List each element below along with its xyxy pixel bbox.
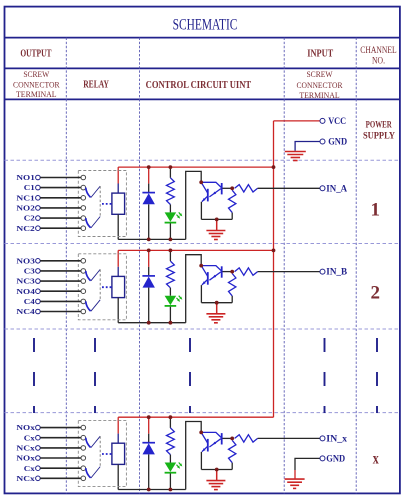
node top-rail diode junction 1	[147, 165, 151, 169]
resistor Rxb (base series)	[235, 435, 258, 442]
wire terminal C3	[40, 270, 81, 272]
terminal NO1 screw circle	[36, 175, 41, 180]
wire bottom rail x	[118, 489, 186, 491]
wire terminal NO3	[40, 260, 81, 262]
resistor R2b (base series)	[235, 268, 258, 275]
terminal Cx relay pin circle	[81, 435, 86, 440]
relay coil Kx	[112, 443, 125, 464]
terminal VCC circle	[320, 118, 325, 123]
wire relay coil bottom lead 2	[117, 298, 119, 323]
wire terminal C2	[40, 217, 81, 219]
wire emitter rail x	[201, 469, 232, 471]
switch pole 2 contact x	[86, 468, 91, 478]
wire terminal NC3	[40, 280, 81, 282]
relay dashed enclosure 1	[78, 171, 126, 237]
wire VCC top rail 2	[118, 249, 273, 251]
svg-text:CONNECTOR: CONNECTOR	[13, 81, 60, 90]
ground input channel x	[285, 478, 305, 480]
terminal C4 relay pin circle	[81, 299, 86, 304]
wire collector riser 2	[186, 255, 202, 323]
wire resistor branch upper x	[169, 417, 171, 428]
switch linkage x	[99, 436, 101, 466]
wire emitter rail 2	[201, 302, 232, 304]
terminal C1 screw circle	[36, 185, 41, 190]
svg-text:NO3: NO3	[16, 256, 35, 265]
terminal NC2 relay pin circle	[81, 226, 86, 231]
resistor R1b (base series)	[235, 185, 258, 192]
terminal C2 relay pin circle	[81, 216, 86, 221]
wire diode branch upper 2	[148, 250, 150, 267]
wire resistor branch upper 2	[169, 250, 171, 261]
transistor Q2	[201, 266, 222, 285]
wire VCC top rail x	[118, 416, 273, 418]
resistor R1c (base pull-down)	[229, 190, 236, 212]
terminal NOx screw circle	[36, 456, 41, 461]
terminal NCx screw circle	[36, 476, 41, 481]
node top-rail diode junction 2	[147, 249, 151, 253]
node top-rail diode junction x	[147, 415, 151, 419]
terminal C4 screw circle	[36, 299, 41, 304]
wire base lead 2	[223, 271, 233, 273]
terminal NO4 screw circle	[36, 289, 41, 294]
wire terminal NC2	[40, 227, 81, 229]
diode D1 (flyback)	[142, 192, 155, 194]
svg-text:SUPPLY: SUPPLY	[363, 130, 395, 140]
svg-text:NC2: NC2	[16, 224, 35, 233]
terminal NO3 screw circle	[36, 259, 41, 264]
node bottom-rail diode junction x	[147, 488, 151, 492]
svg-text:INPUT: INPUT	[307, 49, 333, 60]
wire terminal C4	[40, 300, 81, 302]
column divider x=284.2	[283, 38, 285, 494]
switch pole 1 blade 1	[91, 186, 100, 197]
wire diode branch lower x	[148, 454, 150, 489]
header row line 2	[5, 67, 400, 69]
node bottom-rail LED junction 1	[169, 238, 173, 242]
wire emitter lead x	[200, 452, 202, 470]
svg-text:IN_A: IN_A	[326, 184, 347, 194]
svg-text:IN_B: IN_B	[326, 268, 347, 278]
wire diode branch upper 1	[148, 167, 150, 184]
input terminal IN_x	[320, 436, 325, 441]
title row line	[5, 37, 400, 39]
terminal NC1 screw circle	[36, 196, 41, 201]
terminal C1 relay pin circle	[81, 185, 86, 190]
svg-text:RELAY: RELAY	[83, 80, 109, 91]
terminal NCx screw circle	[36, 446, 41, 451]
terminal NOx screw circle	[36, 425, 41, 430]
transistor Q1	[201, 182, 222, 201]
wire terminal NO4	[40, 290, 81, 292]
node top-rail resistor junction 1	[169, 165, 173, 169]
node bottom-rail diode junction 1	[147, 238, 151, 242]
terminal NC4 screw circle	[36, 309, 41, 314]
terminal NC3 relay pin circle	[81, 279, 86, 284]
LED indicator x	[165, 463, 177, 472]
wire diode branch lower 2	[148, 288, 150, 323]
switch pole 2 blade x	[91, 467, 100, 478]
wire relay coil bottom lead 1	[117, 214, 119, 239]
wire base lead 1	[223, 187, 233, 189]
wire input GND feed channel x	[295, 458, 320, 470]
diode D2 (flyback)	[142, 275, 155, 277]
switch pole 1 contact x	[86, 438, 91, 448]
column divider x=66.3	[65, 38, 67, 494]
svg-text:NO2: NO2	[16, 204, 35, 213]
wire terminal NCx	[40, 447, 81, 449]
wire VCC rail vertical	[273, 121, 275, 417]
switch pole 2 blade 1	[91, 217, 100, 228]
node top-rail resistor junction x	[169, 415, 173, 419]
wire terminal NOx	[40, 457, 81, 459]
row divider y=329.0	[5, 328, 400, 330]
input terminal IN_B	[320, 269, 325, 274]
svg-text:IN_x: IN_x	[326, 435, 347, 445]
terminal NO1 relay pin circle	[81, 175, 86, 180]
node emitter-ground junction 2	[215, 301, 219, 305]
svg-text:VCC: VCC	[328, 116, 346, 126]
wire relay coil top lead 2	[117, 250, 119, 266]
switch pole 2 blade 2	[91, 300, 100, 311]
node base junction 1	[230, 186, 234, 190]
resistor R2c (base pull-down)	[229, 274, 236, 296]
wire resistor to LED 1	[169, 205, 171, 213]
terminal NC1 relay pin circle	[81, 196, 86, 201]
resistor R2a (LED series)	[167, 261, 175, 288]
svg-text:C1: C1	[24, 183, 35, 192]
wire terminal NO2	[40, 207, 81, 209]
svg-text:NC3: NC3	[16, 277, 35, 286]
column divider x=356.2	[355, 38, 357, 494]
terminal NCx relay pin circle	[81, 476, 86, 481]
wire base lead x	[223, 437, 233, 439]
svg-text:SCREW: SCREW	[23, 70, 49, 79]
node VCC rail tap 2	[272, 249, 276, 253]
LED indicator 1	[165, 212, 177, 221]
svg-text:x: x	[373, 450, 379, 467]
node VCC rail tap 1	[272, 165, 276, 169]
relay coil K2	[112, 276, 125, 297]
svg-text:OUTPUT: OUTPUT	[20, 49, 51, 60]
ground 1	[216, 219, 218, 230]
column divider x=139.5	[139, 38, 141, 494]
wire emitter rail 1	[201, 218, 232, 220]
row divider y=243.5	[5, 243, 400, 245]
svg-text:NCx: NCx	[16, 444, 35, 453]
switch pole 1 contact 1	[86, 188, 91, 198]
continuation mark x=377	[376, 338, 378, 413]
svg-text:NO4: NO4	[16, 287, 35, 296]
wire relay coil bottom lead x	[117, 464, 119, 489]
svg-text:C2: C2	[24, 214, 35, 223]
wire GND feed	[295, 142, 320, 151]
continuation mark x=34	[33, 338, 35, 413]
terminal NO3 relay pin circle	[81, 259, 86, 264]
svg-text:NC1: NC1	[16, 193, 35, 202]
wire terminal NOx	[40, 427, 81, 429]
wire collector riser 1	[186, 171, 202, 239]
continuation mark x=95	[94, 338, 96, 413]
transistor Qx	[201, 432, 222, 451]
terminal C3 relay pin circle	[81, 269, 86, 274]
node bottom-rail LED junction 2	[169, 321, 173, 325]
node base junction 2	[230, 270, 234, 274]
wire LED to bottom rail x	[169, 474, 171, 490]
linkage to coil dotted 1	[102, 203, 112, 205]
wire terminal NCx	[40, 477, 81, 479]
terminal NO4 relay pin circle	[81, 289, 86, 294]
row divider y=412.6	[5, 412, 400, 414]
svg-text:TERMINAL: TERMINAL	[299, 91, 339, 100]
wire bottom rail 2	[118, 322, 186, 324]
svg-text:GND: GND	[326, 454, 345, 464]
terminal Cx screw circle	[36, 435, 41, 440]
node emitter-ground junction 1	[215, 218, 219, 222]
switch pole 1 blade x	[91, 436, 100, 447]
terminal Cx screw circle	[36, 466, 41, 471]
terminal NOx relay pin circle	[81, 425, 86, 430]
row divider y=160.3	[5, 159, 400, 161]
linkage to coil dotted x	[102, 453, 112, 455]
terminal NC2 screw circle	[36, 226, 41, 231]
svg-text:CONTROL CIRCUIT UINT: CONTROL CIRCUIT UINT	[146, 80, 252, 91]
svg-text:NO.: NO.	[372, 56, 385, 66]
terminal Cx relay pin circle	[81, 466, 86, 471]
wire resistor branch upper 1	[169, 167, 171, 178]
svg-text:POWER: POWER	[366, 120, 392, 130]
wire diode branch lower 1	[148, 204, 150, 239]
svg-text:CHANNEL: CHANNEL	[360, 46, 397, 56]
wire terminal NC1	[40, 197, 81, 199]
node collector junction x	[199, 431, 203, 435]
wire resistor to LED 2	[169, 288, 171, 296]
svg-text:NC4: NC4	[16, 307, 35, 316]
continuation mark x=324.5	[324, 338, 326, 413]
switch linkage 2	[99, 269, 101, 299]
switch pole 1 blade 2	[91, 269, 100, 280]
svg-text:Cx: Cx	[24, 464, 35, 473]
svg-text:C3: C3	[24, 267, 35, 276]
switch linkage 1	[99, 186, 101, 216]
ground 2	[216, 303, 218, 314]
node VCC rail top-right	[16, 165, 347, 241]
switch pole 2 contact 2	[86, 301, 91, 311]
node bottom-rail LED junction x	[169, 488, 173, 492]
node base junction x	[230, 437, 234, 441]
wire bottom rail 1	[118, 238, 186, 240]
relay dashed enclosure 2	[78, 254, 126, 320]
resistor Rxa (LED series)	[167, 428, 175, 455]
wire resistor to LED x	[169, 455, 171, 463]
svg-text:NOx: NOx	[16, 423, 35, 432]
input terminal IN_A	[320, 186, 325, 191]
wire terminal Cx	[40, 467, 81, 469]
ground x	[216, 470, 218, 481]
terminal C2 screw circle	[36, 216, 41, 221]
wire VCC feed	[274, 120, 321, 122]
terminal NC4 relay pin circle	[81, 309, 86, 314]
terminal NOx relay pin circle	[81, 456, 86, 461]
svg-text:1: 1	[371, 200, 381, 221]
switch pole 1 contact 2	[86, 271, 91, 281]
svg-text:CONNECTOR: CONNECTOR	[297, 81, 343, 90]
wire emitter lead 2	[200, 285, 202, 303]
wire VCC top rail 1	[118, 166, 273, 168]
relay coil K1	[112, 193, 125, 214]
wire diode branch upper x	[148, 417, 150, 434]
svg-text:SCREW: SCREW	[306, 70, 332, 79]
LED indicator 2	[165, 296, 177, 305]
wire terminal Cx	[40, 437, 81, 439]
svg-text:TERMINAL: TERMINAL	[16, 90, 57, 99]
wire relay coil top lead 1	[117, 167, 119, 183]
node bottom-rail diode junction 2	[147, 321, 151, 325]
diode Dx (flyback)	[142, 442, 155, 444]
svg-text:NOx: NOx	[16, 454, 35, 463]
header row line 3	[5, 98, 400, 100]
terminal GND circle channel x	[320, 456, 325, 461]
wire LED to bottom rail 2	[169, 307, 171, 323]
wire terminal NC4	[40, 311, 81, 313]
node collector junction 2	[199, 264, 203, 268]
wire terminal C1	[40, 187, 81, 189]
svg-text:Cx: Cx	[24, 433, 35, 442]
terminal NO2 relay pin circle	[81, 206, 86, 211]
wire LED to bottom rail 1	[169, 223, 171, 239]
svg-text:2: 2	[371, 283, 381, 304]
terminal NC3 screw circle	[36, 279, 41, 284]
terminal C3 screw circle	[36, 269, 41, 274]
wire collector riser x	[186, 422, 202, 490]
resistor R1a (LED series)	[167, 178, 175, 205]
svg-text:NCx: NCx	[16, 474, 35, 483]
svg-text:SCHEMATIC: SCHEMATIC	[173, 16, 238, 34]
svg-text:GND: GND	[328, 136, 347, 146]
svg-text:C4: C4	[24, 297, 35, 306]
ground power supply	[285, 151, 306, 153]
wire relay coil top lead x	[117, 417, 119, 433]
resistor Rxc (base pull-down)	[229, 440, 236, 462]
terminal GND circle	[320, 139, 325, 144]
svg-text:NO1: NO1	[16, 173, 35, 182]
continuation mark x=190	[189, 338, 191, 413]
wire terminal NO1	[40, 177, 81, 179]
switch pole 2 contact 1	[86, 218, 91, 228]
node emitter-ground junction x	[215, 468, 219, 472]
terminal NCx relay pin circle	[81, 446, 86, 451]
node top-rail resistor junction 2	[169, 249, 173, 253]
node collector junction 1	[199, 180, 203, 184]
wire emitter lead 1	[200, 202, 202, 220]
relay dashed enclosure x	[78, 421, 126, 487]
terminal NO2 screw circle	[36, 206, 41, 211]
linkage to coil dotted 2	[102, 286, 112, 288]
